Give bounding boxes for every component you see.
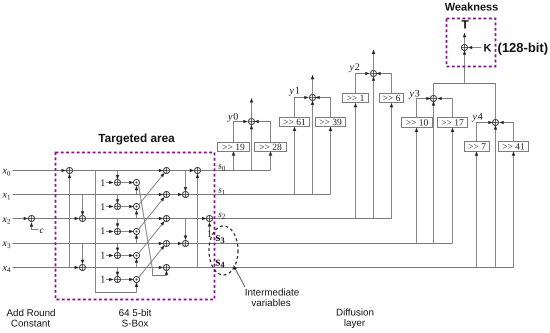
svg-text:64 5-bit: 64 5-bit — [119, 308, 152, 319]
xor gate y2 — [371, 71, 377, 77]
wire x3 down into A4 — [82, 243, 84, 264]
wire pointer from Intermediate variables to ellipse — [234, 266, 246, 288]
wire x1 down into A2 — [82, 195, 84, 216]
wire t3 diagonal row3 and to chi x2 — [139, 221, 165, 253]
svg-text:2: 2 — [355, 62, 360, 73]
wire row1 xor to and gate — [121, 206, 134, 208]
wire s4 up into rot box 1 — [476, 152, 478, 268]
svg-text:y: y — [227, 112, 233, 123]
xor gate key addition — [462, 45, 468, 51]
wire bottom route up into row4 and gate — [136, 283, 138, 293]
wire rot box1 lane2 to xor left — [356, 74, 370, 94]
and gate row1 — [134, 204, 140, 210]
wire s1 up into rot box 2 — [330, 127, 332, 195]
svg-text:>> 7: >> 7 — [468, 143, 486, 153]
xor gate A2 x2^=x1 — [75, 218, 79, 220]
svg-text:Targeted area: Targeted area — [98, 131, 175, 145]
xor gate y1 — [310, 95, 316, 101]
svg-text:(128-bit): (128-bit) — [498, 40, 549, 55]
wire x2 down into B3 — [185, 219, 187, 240]
rot box lane4 &gt;&gt; 7 — [465, 142, 490, 153]
wire 1 into row2 xor — [106, 231, 113, 233]
wire state line x3/s3 — [13, 243, 453, 245]
svg-text:1: 1 — [100, 226, 105, 237]
xor gate NOT row2 — [115, 229, 121, 235]
wire x4 down into row4 xor — [117, 267, 119, 276]
xor gate B3 x3^=x2 — [178, 243, 182, 245]
svg-text:1: 1 — [100, 202, 105, 213]
svg-text:K: K — [484, 42, 492, 54]
svg-text:>> 39: >> 39 — [319, 118, 342, 128]
xor gate A4 x4^=x3 — [75, 267, 79, 269]
svg-text:y: y — [289, 86, 295, 97]
svg-text:4: 4 — [478, 112, 483, 123]
wire 1 into row4 xor — [106, 279, 113, 281]
wire s2 up into rot box 1 — [355, 103, 357, 219]
xor gate y3 — [431, 96, 437, 102]
wire s3 up into rot box 1 — [416, 128, 418, 243]
wire x1 down into row1 xor — [117, 195, 119, 204]
xor gate A0 x0^=x4 — [62, 170, 66, 172]
xor gate round-constant on x2 — [25, 218, 28, 220]
svg-text:S-Box: S-Box — [122, 318, 149, 329]
wire 1 into row1 xor — [106, 206, 113, 208]
wire rot box1 lane0 to xor left — [234, 122, 248, 143]
xor gate NOT row4 — [115, 277, 121, 283]
xor gate y4 — [493, 120, 499, 126]
svg-text:>> 61: >> 61 — [283, 118, 306, 128]
svg-text:0: 0 — [233, 112, 238, 123]
svg-text:Weakness: Weakness — [445, 2, 499, 14]
wire y3 up to tag bus — [433, 83, 435, 95]
xor gate NOT row0 — [115, 180, 121, 186]
wire s1 direct up into xor — [312, 101, 314, 195]
svg-text:Constant: Constant — [11, 318, 50, 329]
wire state line x4/s4 — [13, 267, 514, 269]
xor gate chi on x0 — [159, 170, 164, 172]
wire x4 up into C0 — [197, 174, 199, 267]
wire t1 diagonal row1 and to chi x0 — [139, 173, 165, 205]
wire t0 diagonal row0 and to chi x4 (long) — [139, 185, 167, 276]
wire t4 diagonal row4 and to chi x3 — [139, 246, 165, 278]
wire state line x1/s1 — [13, 194, 331, 196]
svg-text:>> 19: >> 19 — [222, 143, 245, 153]
wire tag bus up into key xor — [464, 51, 466, 83]
svg-text:Add Round: Add Round — [6, 308, 55, 319]
targeted area dashed rectangle — [56, 153, 215, 300]
wire 1 into row0 xor — [106, 182, 113, 184]
wire s2 up into rot box 2 — [391, 103, 393, 219]
xor gate NOT row1 — [115, 204, 121, 210]
xor gate chi on x2 — [159, 218, 164, 220]
wire x3 up into row2 and gate — [136, 234, 138, 243]
wire s0 direct up into xor — [251, 125, 253, 171]
wire rot box1 lane4 to xor left — [477, 123, 493, 142]
wire rot box1 lane3 to xor left — [417, 99, 431, 118]
svg-text:y: y — [349, 62, 355, 73]
and gate row3 — [134, 253, 140, 259]
svg-text:1: 1 — [295, 86, 300, 97]
rot box lane1 &gt;&gt; 61 — [280, 118, 310, 129]
wire row0 xor to and gate — [121, 182, 134, 184]
svg-text:y: y — [409, 89, 415, 100]
wire state line x0/s0 — [13, 170, 271, 172]
wire s0 up into rot box 2 — [270, 151, 272, 170]
xor gate D2 x2 negate — [202, 218, 206, 220]
wire s1 up into rot box 1 — [294, 127, 296, 195]
wire s2 direct up into xor — [373, 77, 375, 219]
wire x4 up into A0 — [69, 174, 71, 267]
svg-text:>> 28: >> 28 — [259, 143, 282, 153]
wire x1 up into row0 and gate — [136, 186, 138, 195]
wire row2 xor to and gate — [121, 231, 134, 233]
wire x4 up into row3 and gate — [136, 259, 138, 268]
rot box lane2 &gt;&gt; 6 — [380, 94, 404, 105]
rot box lane1 &gt;&gt; 39 — [316, 118, 346, 129]
and gate row2 — [134, 229, 140, 235]
wire rot box2 lane2 to xor right — [377, 74, 392, 94]
svg-text:1: 1 — [100, 178, 105, 189]
svg-text:Diffusion: Diffusion — [336, 307, 374, 318]
wire s3 direct up into xor — [433, 101, 435, 243]
wire K into key xor — [468, 47, 482, 49]
wire s4 up into rot box 2 — [513, 152, 515, 268]
wire 1 into row3 xor — [106, 255, 113, 257]
svg-text:T: T — [461, 18, 469, 32]
svg-text:>> 41: >> 41 — [502, 143, 525, 153]
wire y2 output arrow — [373, 50, 375, 70]
svg-text:>> 17: >> 17 — [441, 119, 464, 129]
rot box lane2 &gt;&gt; 1 — [343, 94, 369, 105]
xor gate B1 x1^=x0 — [178, 194, 182, 196]
svg-text:Intermediate: Intermediate — [245, 287, 300, 298]
wire state line x2/s2 — [13, 218, 392, 220]
wire rot box2 lane1 to xor right — [316, 98, 331, 118]
xor gate C0 x0^=x4 final — [190, 170, 194, 172]
wire rot box2 lane0 to xor right — [255, 122, 271, 143]
wire s3 up into rot box 2 — [452, 128, 454, 243]
rot box lane0 &gt;&gt; 28 — [255, 143, 287, 154]
wire constant c into xor — [32, 223, 39, 230]
wire y4 up to tag bus — [495, 83, 497, 119]
wire x2 down into row2 xor — [117, 219, 119, 228]
svg-text:>> 6: >> 6 — [383, 94, 401, 104]
xor gate chi on x4 — [159, 267, 164, 269]
wire tag bus horizontal — [434, 83, 496, 85]
weakness dashed rectangle — [447, 19, 496, 67]
svg-text:>> 1: >> 1 — [347, 94, 365, 104]
wire x0 down into B1 — [185, 171, 187, 192]
svg-text:1: 1 — [100, 275, 105, 286]
wire x2 up into row1 and gate — [136, 210, 138, 219]
xor gate NOT row3 — [115, 253, 121, 259]
wire row4 xor to and gate — [121, 279, 134, 281]
wire row3 xor to and gate — [121, 255, 134, 257]
wire t2 diagonal row2 and to chi x1 — [139, 197, 165, 229]
svg-text:1: 1 — [100, 250, 105, 261]
wire rot box2 lane4 to xor right — [500, 123, 514, 142]
wire s4 direct up into xor — [495, 125, 497, 267]
wire 1 up into D2 — [209, 222, 211, 233]
rot box lane0 &gt;&gt; 19 — [218, 143, 250, 154]
wire rot box2 lane3 to xor right — [438, 99, 453, 118]
and gate row4 — [134, 277, 140, 283]
wire rot box1 lane1 to xor left — [295, 98, 309, 118]
xor gate chi on x1 — [159, 194, 164, 196]
svg-text:variables: variables — [251, 298, 290, 309]
svg-text:>> 10: >> 10 — [406, 119, 429, 129]
wire y1 output arrow — [312, 75, 314, 94]
svg-text:3: 3 — [415, 89, 420, 100]
rot box lane3 &gt;&gt; 17 — [438, 118, 468, 129]
xor gate y0 — [249, 119, 255, 125]
svg-text:y: y — [472, 112, 478, 123]
rot box lane4 &gt;&gt; 41 — [499, 142, 529, 153]
wire s0 up into rot box 1 — [233, 151, 235, 170]
wire x3 down into row3 xor — [117, 243, 119, 252]
dashed ellipse around s3 s4 — [209, 226, 238, 275]
wire x0 down into row0 xor — [117, 171, 119, 180]
wire key xor output to T — [464, 33, 466, 44]
wire x0 tap down to bottom route — [96, 171, 137, 293]
and gate row0 — [134, 180, 140, 186]
wire y0 output arrow — [251, 98, 253, 118]
rot box lane3 &gt;&gt; 10 — [402, 118, 433, 129]
xor gate chi on x3 — [159, 243, 164, 245]
svg-text:layer: layer — [344, 318, 366, 329]
